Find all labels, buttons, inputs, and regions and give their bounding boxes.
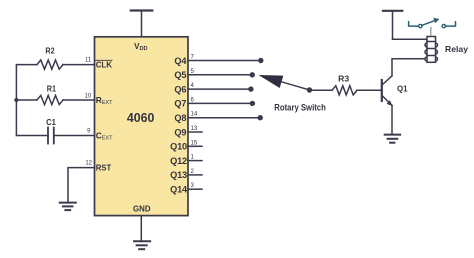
svg-text:RST: RST [96,162,112,172]
pin label CLK with overline [96,59,112,69]
wire Q5 [188,74,250,76]
label Q1 [397,83,408,93]
rotary switch wiper arrow [259,75,310,90]
wire left rail [15,65,17,136]
node Q8 contact [258,115,263,120]
wire power to relay coil top [393,38,427,40]
svg-text:2: 2 [191,169,195,175]
label R3 [338,73,349,83]
svg-text:Q1: Q1 [397,83,408,93]
svg-text:5: 5 [191,69,195,75]
svg-text:Q5: Q5 [174,70,186,80]
svg-text:1: 1 [191,155,195,161]
label C1 [46,117,56,127]
ground (GND) [134,241,150,249]
svg-text:GND: GND [133,203,151,213]
svg-text:C1: C1 [46,117,56,127]
svg-text:Q8: Q8 [174,113,186,123]
label 4060 [127,110,154,125]
wire Q6 [188,88,249,90]
pin label CEXT [96,130,113,141]
svg-text:R2: R2 [45,45,55,55]
svg-text:Q10: Q10 [170,142,187,152]
transistor Q1 [382,76,393,106]
label Rotary Switch [274,102,326,112]
label R2 [45,45,55,55]
node Q6 contact [248,86,253,91]
svg-text:4: 4 [191,83,195,89]
svg-text:3: 3 [191,183,195,189]
power bar top right [383,11,402,40]
svg-text:Relay: Relay [445,44,468,54]
svg-text:4060: 4060 [127,110,154,125]
wire Q10 stub [188,145,202,147]
svg-text:10: 10 [85,94,92,100]
svg-text:15: 15 [191,140,198,146]
wire Q8 [188,117,258,119]
wire GND to ground [140,216,142,241]
ground (Q1 emitter) [385,135,401,143]
svg-text:11: 11 [85,57,92,63]
node rotary pole [307,87,312,92]
wire RST to ground [68,168,95,202]
capacitor C1 [16,128,94,144]
wire emitter to ground [391,106,393,134]
IC U1 4060 counter body [95,37,189,216]
ground (RST) [60,203,76,211]
node Q4 contact [258,58,263,63]
resistor R1 [16,95,94,104]
wire collector to relay coil [392,59,427,76]
power bar VDD top [131,11,153,37]
wire Q7 [188,102,250,104]
svg-text:Rotary Switch: Rotary Switch [274,102,326,112]
pin numbers right (7,5,4,6,14,13,15,1,2,3) [191,55,198,190]
label R1 [47,83,57,93]
wire Q9 stub [188,131,202,133]
pin label GND [133,203,151,213]
svg-text:Q4: Q4 [174,56,187,66]
pin labels Q4-Q14 [170,56,188,195]
relay coil [425,37,438,63]
dashed link relay contact to coil [430,28,432,37]
svg-text:Q13: Q13 [170,170,187,180]
svg-text:R3: R3 [338,73,349,83]
svg-text:14: 14 [191,112,198,118]
svg-text:Q7: Q7 [174,99,186,109]
wire Q12 stub [188,160,202,162]
svg-text:12: 12 [85,160,92,166]
relay contact switch [409,18,456,28]
svg-text:Q9: Q9 [174,127,186,137]
resistor R3 [310,86,382,95]
wire Q14 stub [188,188,202,190]
svg-text:Q14: Q14 [170,185,188,195]
pin numbers left (11,10,9,12) [85,57,93,166]
svg-text:7: 7 [191,55,195,61]
pin label RST [96,162,112,172]
pin label REXT [96,95,113,106]
node Q5 contact [250,72,255,77]
wire Q13 stub [188,174,202,176]
svg-text:CLK: CLK [96,59,112,69]
wire Q4 [188,60,258,62]
svg-text:6: 6 [191,97,195,103]
svg-text:Q6: Q6 [174,84,186,94]
node Q7 contact [250,101,255,106]
svg-text:13: 13 [191,126,198,132]
node junction dot on rail [14,98,18,102]
svg-text:Q12: Q12 [170,156,187,166]
svg-text:9: 9 [87,128,91,134]
resistor R2 [16,60,94,69]
svg-text:R1: R1 [47,83,57,93]
pin label VDD [134,42,147,52]
label Relay [445,44,468,54]
